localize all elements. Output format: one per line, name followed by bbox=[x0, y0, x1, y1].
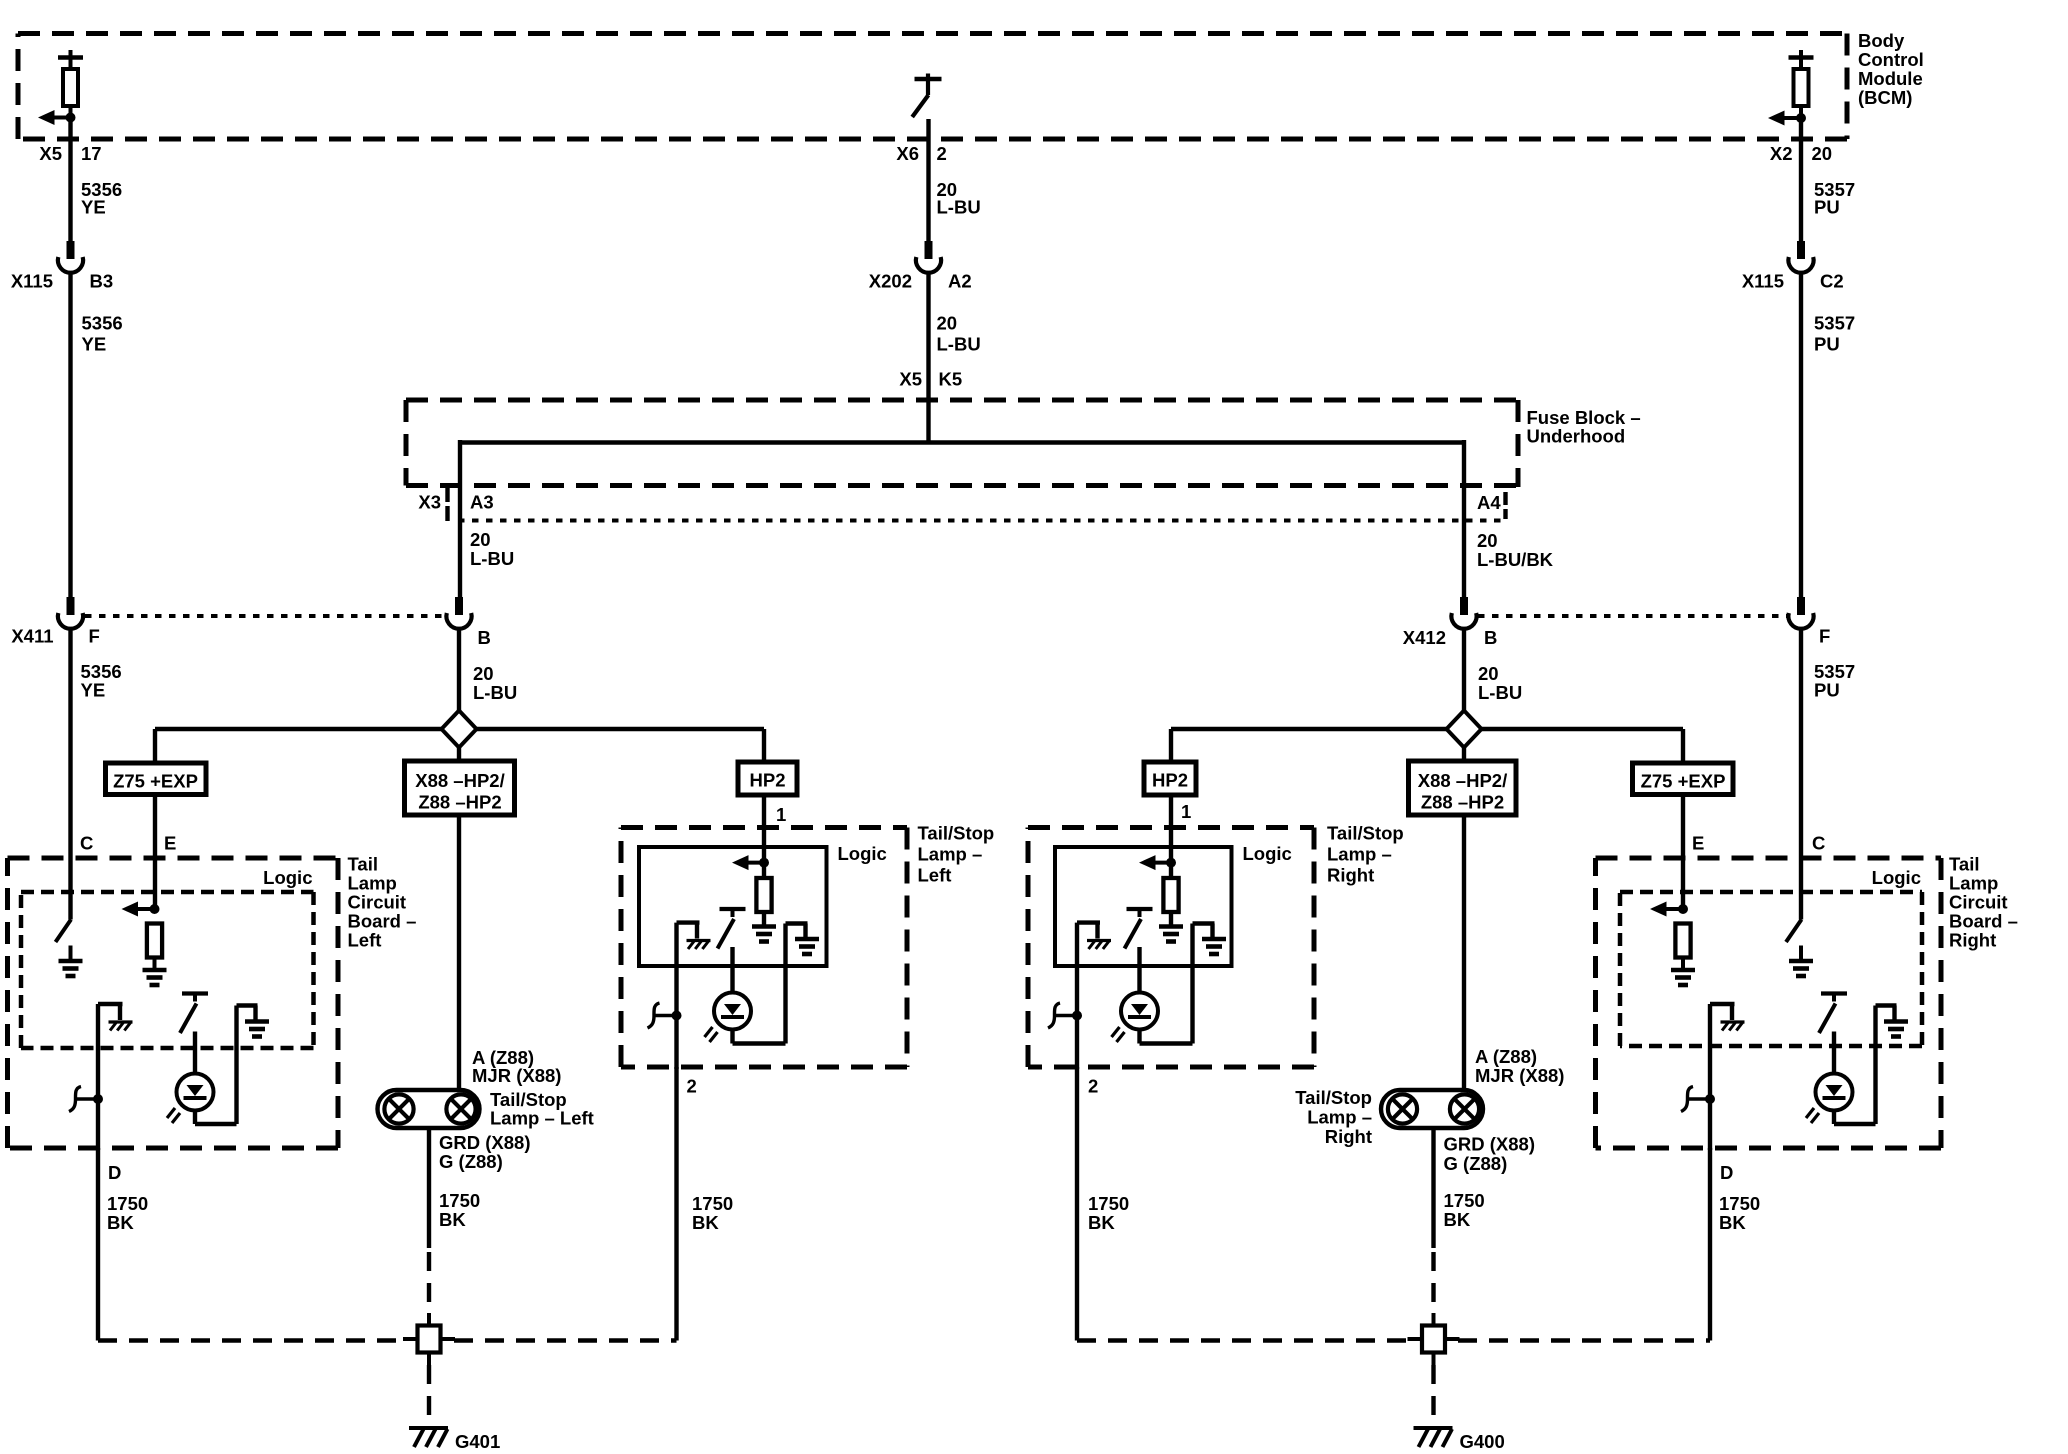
svg-text:X2: X2 bbox=[1770, 143, 1793, 164]
svg-text:1: 1 bbox=[1181, 801, 1191, 822]
svg-text:Lamp –: Lamp – bbox=[1327, 844, 1392, 865]
arrow into logic (Left unit) bbox=[732, 855, 769, 870]
svg-text:Z75 +EXP: Z75 +EXP bbox=[113, 771, 198, 792]
svg-text:D: D bbox=[108, 1162, 121, 1183]
pin label X6 | 2 bbox=[896, 143, 946, 164]
svg-text:X88 –HP2/: X88 –HP2/ bbox=[1418, 770, 1507, 791]
dashed wire to G401 splice bbox=[427, 1252, 431, 1311]
board box: Tail Lamp Circuit Board - Left, dashed outline bbox=[8, 856, 339, 861]
ground at bulb bracket (board Left) bbox=[245, 1022, 269, 1037]
wire: BCM switch down to connector X202 bbox=[926, 119, 930, 241]
svg-text:B: B bbox=[478, 627, 491, 648]
svg-text:MJR (X88): MJR (X88) bbox=[1475, 1065, 1564, 1086]
wire: BCM pin X5-17 down to connector X115 bbox=[68, 118, 72, 242]
connector X115 pin B3 (left) bbox=[58, 241, 83, 273]
pigtail hook on pin 2 wire (Left unit) bbox=[648, 1003, 682, 1028]
pin label X5 | K5 (fuse block input) bbox=[899, 369, 962, 390]
svg-text:17: 17 bbox=[81, 143, 102, 164]
svg-text:Board –: Board – bbox=[1949, 911, 2018, 932]
wire: switch throw down to bulb (Left unit) bbox=[730, 947, 734, 993]
wire: X88 left down to tail lamp left bbox=[457, 815, 461, 1090]
svg-text:D: D bbox=[1720, 1162, 1733, 1183]
splice bus (left): Z75 to HP2 bbox=[155, 727, 764, 731]
wire: bulb to ground bracket (Left unit) bbox=[733, 924, 808, 1044]
net box Z75 +EXP (left) bbox=[106, 763, 207, 795]
label A4 with dotted separator bbox=[1477, 492, 1506, 519]
svg-text:20: 20 bbox=[473, 663, 494, 684]
svg-text:G401: G401 bbox=[455, 1431, 500, 1452]
wire label 5357 PU (third, right) bbox=[1814, 661, 1855, 701]
svg-text:X115: X115 bbox=[1742, 271, 1784, 292]
svg-text:Tail/Stop: Tail/Stop bbox=[1327, 823, 1404, 844]
svg-text:Right: Right bbox=[1327, 865, 1374, 886]
wire label 20 L-BU (below B left) bbox=[473, 663, 517, 703]
label X115 | B3 bbox=[11, 271, 113, 292]
svg-text:YE: YE bbox=[81, 680, 106, 701]
label X3 | A3 with dotted separator bbox=[418, 487, 493, 521]
svg-text:L-BU: L-BU bbox=[470, 548, 514, 569]
svg-text:Module: Module bbox=[1858, 68, 1923, 89]
ground under resistor (Right unit) bbox=[1159, 927, 1183, 942]
LED bulb (Right unit) bbox=[1112, 993, 1159, 1043]
splice diamond S-left bbox=[442, 711, 477, 748]
svg-text:G400: G400 bbox=[1460, 1431, 1505, 1452]
wire: switch throw down to bulb (Right unit) bbox=[1137, 947, 1141, 993]
svg-text:Logic: Logic bbox=[1243, 843, 1292, 864]
svg-text:A2: A2 bbox=[948, 271, 972, 292]
wire label 20 L-BU (below B right) bbox=[1478, 663, 1522, 703]
wire label 1750 BK (unit-left pin 2) bbox=[692, 1193, 733, 1233]
svg-text:Tail: Tail bbox=[348, 854, 379, 875]
svg-text:X6: X6 bbox=[896, 143, 919, 164]
LED bulb (Left unit) bbox=[705, 993, 752, 1043]
svg-text:Left: Left bbox=[348, 930, 382, 951]
label: Body Control Module (BCM) bbox=[1858, 30, 1924, 108]
pigtail hook on pin D wire (board Left) bbox=[69, 1087, 103, 1112]
switch to ground on pin C (board Left) bbox=[56, 909, 72, 961]
svg-text:Circuit: Circuit bbox=[1949, 892, 2008, 913]
board box: Tail Lamp Circuit Board - Right, dashed outline bbox=[1596, 856, 1942, 861]
wire: fuse block right drop to pin A4 bbox=[1462, 440, 1466, 597]
labels around left lamp bbox=[439, 1047, 594, 1172]
svg-text:A (Z88): A (Z88) bbox=[1475, 1046, 1537, 1067]
svg-text:L-BU: L-BU bbox=[937, 334, 981, 355]
svg-text:Lamp: Lamp bbox=[1949, 873, 1998, 894]
wire label 1750 BK (left lamp ground) bbox=[439, 1190, 480, 1230]
wire: HP2 left pin 1 down into lamp unit bbox=[762, 795, 766, 878]
svg-text:5356: 5356 bbox=[82, 313, 123, 334]
chassis ground (board Right) bbox=[1721, 1022, 1745, 1031]
wire: bulb loop to ground bracket (board Right) bbox=[1834, 1006, 1897, 1125]
arrow into logic (Right unit) bbox=[1139, 855, 1176, 870]
svg-text:1750: 1750 bbox=[439, 1190, 480, 1211]
pigtail hook on pin 2 wire (Right unit) bbox=[1048, 1003, 1082, 1028]
wire: left lamp ground drop bbox=[427, 1128, 431, 1248]
svg-text:X88 –HP2/: X88 –HP2/ bbox=[415, 770, 504, 791]
module box: Fuse Block - Underhood, dashed outline bbox=[406, 398, 1518, 403]
svg-text:L-BU: L-BU bbox=[1478, 682, 1522, 703]
LED bulb (board Left) bbox=[167, 1074, 214, 1124]
unit box: Tail/Stop Lamp - Left, dashed outline bbox=[621, 825, 907, 830]
wire: X115-B3 down to connector X411 bbox=[68, 273, 72, 597]
wire: B down to splice diamond (right) bbox=[1462, 629, 1466, 712]
ground at bracket (Left unit) bbox=[795, 939, 819, 954]
label: Fuse Block - Underhood bbox=[1527, 407, 1641, 447]
chassis ground in logic (Left unit) bbox=[687, 941, 711, 950]
svg-text:20: 20 bbox=[1478, 663, 1499, 684]
svg-text:1750: 1750 bbox=[1088, 1193, 1129, 1214]
svg-text:K5: K5 bbox=[939, 369, 963, 390]
pin label X2 | 20 bbox=[1770, 143, 1832, 164]
connector pin F (right) bbox=[1788, 597, 1813, 629]
pigtail hook on pin D wire (board Right) bbox=[1681, 1087, 1715, 1112]
svg-text:X3: X3 bbox=[418, 492, 441, 513]
svg-text:BK: BK bbox=[107, 1212, 134, 1233]
svg-text:1750: 1750 bbox=[692, 1193, 733, 1214]
dotted connector-face line between A3 and A4 bbox=[458, 519, 1504, 523]
ground G400 bbox=[1414, 1428, 1453, 1447]
svg-text:X411: X411 bbox=[11, 626, 53, 647]
net box HP2 (right) bbox=[1144, 762, 1196, 795]
wire label 5356 YE (second, left) bbox=[82, 313, 123, 355]
lamp: Tail/Stop Lamp - Right (bulb pair) bbox=[1381, 1090, 1483, 1128]
svg-text:20: 20 bbox=[937, 313, 958, 334]
svg-text:Z88 –HP2: Z88 –HP2 bbox=[418, 792, 501, 813]
splice bus (right): HP2 to Z75 bbox=[1171, 727, 1683, 731]
resistor in logic (Left unit) bbox=[756, 878, 771, 927]
svg-text:Right: Right bbox=[1325, 1126, 1372, 1147]
svg-text:X115: X115 bbox=[11, 271, 53, 292]
pin label X5 | 17 bbox=[39, 143, 101, 164]
svg-text:Lamp –: Lamp – bbox=[1307, 1107, 1372, 1128]
wire: BCM pin X2-20 down to connector X115 right bbox=[1799, 118, 1803, 241]
svg-text:Lamp –: Lamp – bbox=[918, 844, 983, 865]
dashed wire to G400 splice bbox=[1431, 1252, 1435, 1311]
wire label 5356 YE (third, left) bbox=[81, 661, 122, 701]
switch S1 inside BCM (brake signal, x=928.5) bbox=[912, 74, 941, 118]
arrow on pin E wire (board Left) bbox=[122, 902, 160, 917]
dashed ground bus to G400 bbox=[1077, 1338, 1710, 1342]
net box X88 -HP2/Z88 -HP2 (right) bbox=[1409, 761, 1517, 815]
svg-text:Lamp: Lamp bbox=[348, 873, 397, 894]
wire label 1750 BK (unit-right pin 2) bbox=[1088, 1193, 1129, 1233]
wire: fuse block left drop to pin A3 bbox=[458, 440, 462, 597]
wire: bus down to HP2 box (right) bbox=[1169, 729, 1173, 762]
svg-text:(BCM): (BCM) bbox=[1858, 87, 1912, 108]
switch in logic (Right unit) bbox=[1125, 909, 1153, 949]
svg-text:G (Z88): G (Z88) bbox=[439, 1151, 503, 1172]
chassis bracket / pin 2 wire (Right unit) bbox=[1077, 923, 1100, 1069]
svg-text:YE: YE bbox=[81, 197, 106, 218]
wire label 20 L-BU (second, middle) bbox=[937, 313, 981, 355]
wire: X202-A2 down to fuse block pin X5-K5 bbox=[926, 273, 930, 443]
svg-text:Logic: Logic bbox=[1872, 867, 1921, 888]
wire label 5357 PU (second, right) bbox=[1814, 313, 1855, 355]
svg-text:GRD (X88): GRD (X88) bbox=[439, 1132, 531, 1153]
ground under resistor (Left unit) bbox=[752, 927, 776, 942]
chassis bracket / pin 2 wire (Left unit) bbox=[677, 923, 700, 1069]
ground G401 bbox=[409, 1428, 448, 1447]
svg-text:B3: B3 bbox=[90, 271, 114, 292]
label X412 | B bbox=[1403, 627, 1498, 648]
switch in board Left bbox=[180, 994, 208, 1034]
wire: X411-F down into left tail lamp circuit board (pin C) bbox=[68, 629, 72, 909]
fuse F-right inside BCM (x=1801) bbox=[1789, 50, 1814, 117]
svg-text:Board –: Board – bbox=[348, 911, 417, 932]
module box: Body Control Module (BCM), dashed outline bbox=[18, 31, 1847, 36]
label: Tail/Stop Lamp - Left bbox=[918, 823, 995, 886]
switch in board Right bbox=[1819, 994, 1847, 1034]
svg-text:BK: BK bbox=[1719, 1212, 1746, 1233]
svg-text:G (Z88): G (Z88) bbox=[1444, 1153, 1508, 1174]
svg-text:PU: PU bbox=[1814, 197, 1840, 218]
wire: X88 right down to tail lamp right bbox=[1462, 815, 1466, 1090]
wire: B down to splice diamond (left) bbox=[457, 629, 461, 712]
svg-text:X5: X5 bbox=[39, 143, 62, 164]
svg-text:E: E bbox=[164, 833, 176, 854]
svg-text:X202: X202 bbox=[869, 271, 912, 292]
chassis bracket / pin D wire (board Right) bbox=[1710, 1004, 1735, 1150]
wire: F down into right tail lamp circuit board (pin C) bbox=[1799, 629, 1803, 909]
wire: right lamp ground drop bbox=[1431, 1128, 1435, 1248]
ground at bracket (Right unit) bbox=[1202, 939, 1226, 954]
wire: bulb loop to ground bracket (board Left) bbox=[195, 1006, 258, 1125]
logic box (dashed) inside board Left bbox=[21, 890, 314, 895]
svg-text:HP2: HP2 bbox=[750, 770, 786, 791]
net box Z75 +EXP (right) bbox=[1633, 763, 1734, 795]
label X115 | C2 bbox=[1742, 271, 1844, 292]
svg-text:BK: BK bbox=[692, 1212, 719, 1233]
svg-text:A3: A3 bbox=[470, 492, 494, 513]
svg-text:1750: 1750 bbox=[1444, 1190, 1485, 1211]
wire label 5357 PU (upper right) bbox=[1814, 179, 1855, 218]
svg-text:B: B bbox=[1484, 627, 1497, 648]
svg-text:BK: BK bbox=[1444, 1209, 1471, 1230]
wire: bus down to Z75 box (right) bbox=[1681, 729, 1685, 762]
wire label 20 L-BU (upper middle) bbox=[937, 179, 981, 218]
svg-text:MJR (X88): MJR (X88) bbox=[472, 1065, 561, 1086]
svg-text:Body: Body bbox=[1858, 30, 1905, 51]
arrow (signal exits left) on right BCM wire bbox=[1768, 111, 1806, 126]
switch to ground on pin C (board Right) bbox=[1786, 909, 1802, 961]
svg-text:2: 2 bbox=[1088, 1076, 1098, 1097]
wire: switch throw to bulb (board Left) bbox=[193, 1032, 197, 1074]
svg-text:1750: 1750 bbox=[1719, 1193, 1760, 1214]
connector X411 pin F (left) bbox=[58, 597, 83, 629]
connector X202 pin A2 bbox=[916, 241, 941, 273]
svg-text:C: C bbox=[1812, 833, 1825, 854]
svg-text:L-BU/BK: L-BU/BK bbox=[1477, 549, 1554, 570]
svg-text:X5: X5 bbox=[899, 369, 922, 390]
dashed drop to G401 ground bbox=[427, 1365, 431, 1424]
svg-text:A4: A4 bbox=[1477, 492, 1501, 513]
dotted connector-face line X411 row (left) bbox=[85, 614, 445, 618]
svg-text:F: F bbox=[89, 626, 100, 647]
net box HP2 (left) bbox=[738, 762, 797, 795]
svg-text:PU: PU bbox=[1814, 680, 1840, 701]
wire label 5356 YE (upper left) bbox=[81, 179, 122, 218]
label: Tail Lamp Circuit Board - Right bbox=[1949, 854, 2018, 951]
connector X115 pin C2 (right) bbox=[1788, 241, 1813, 273]
wire label 20 L-BU/BK (below A4) bbox=[1477, 530, 1554, 570]
svg-text:GRD (X88): GRD (X88) bbox=[1444, 1134, 1536, 1155]
wire: HP2 right pin 1 down into lamp unit bbox=[1169, 795, 1173, 878]
ground under C switch (board Left) bbox=[59, 961, 83, 976]
svg-text:F: F bbox=[1819, 626, 1830, 647]
splice junction square at G401 bbox=[403, 1313, 455, 1365]
svg-text:L-BU: L-BU bbox=[473, 682, 517, 703]
svg-text:Z75 +EXP: Z75 +EXP bbox=[1641, 771, 1726, 792]
label: Tail Lamp Circuit Board - Left bbox=[348, 854, 417, 951]
svg-text:Logic: Logic bbox=[838, 843, 887, 864]
svg-text:C: C bbox=[80, 833, 93, 854]
svg-text:5357: 5357 bbox=[1814, 313, 1855, 334]
wire: switch throw to bulb (board Right) bbox=[1832, 1032, 1836, 1074]
chassis bracket / pin D wire (board Left) bbox=[98, 1004, 123, 1150]
wire: unit-left pin 2 down bbox=[674, 1067, 678, 1341]
LED bulb (board Right) bbox=[1806, 1074, 1853, 1124]
wire: bulb to ground bracket (Right unit) bbox=[1140, 924, 1215, 1044]
chassis ground in logic (Right unit) bbox=[1087, 941, 1111, 950]
wire: diamond down to X88 box (right) bbox=[1462, 747, 1466, 762]
svg-text:20: 20 bbox=[470, 529, 491, 550]
unit box: Tail/Stop Lamp - Right, dashed outline bbox=[1028, 825, 1314, 830]
label X411 | F bbox=[11, 626, 100, 647]
svg-text:Control: Control bbox=[1858, 49, 1924, 70]
svg-text:1750: 1750 bbox=[107, 1193, 148, 1214]
logic box (solid) inside Tail/Stop Lamp - Left bbox=[639, 847, 827, 966]
ground under C switch (board Right) bbox=[1789, 961, 1813, 976]
svg-text:2: 2 bbox=[937, 143, 947, 164]
lamp: Tail/Stop Lamp - Left (bulb pair) bbox=[378, 1090, 480, 1128]
svg-text:Z88 –HP2: Z88 –HP2 bbox=[1421, 792, 1504, 813]
connector X412 pin B (right branch) bbox=[1451, 597, 1476, 629]
wire label 20 L-BU (below A3) bbox=[470, 529, 514, 569]
svg-text:1: 1 bbox=[776, 804, 786, 825]
svg-text:2: 2 bbox=[687, 1076, 697, 1097]
svg-text:BK: BK bbox=[439, 1209, 466, 1230]
logic box (solid) inside Tail/Stop Lamp - Right bbox=[1055, 847, 1232, 966]
svg-text:Lamp – Left: Lamp – Left bbox=[490, 1108, 594, 1129]
ground under E resistor (board Right) bbox=[1671, 970, 1695, 985]
wire: X115-C2 down to connector F right bbox=[1799, 273, 1803, 597]
logic box (dashed) inside board Right bbox=[1620, 890, 1922, 895]
labels around right lamp bbox=[1295, 1046, 1564, 1174]
wire label 1750 BK (pin D, board Left) bbox=[107, 1193, 148, 1233]
svg-text:X412: X412 bbox=[1403, 627, 1446, 648]
svg-text:E: E bbox=[1692, 833, 1704, 854]
svg-text:Tail: Tail bbox=[1949, 854, 1980, 875]
resistor in logic (Right unit) bbox=[1163, 878, 1178, 927]
wire: board-left pin D down bbox=[96, 1148, 100, 1341]
svg-text:20: 20 bbox=[1812, 143, 1833, 164]
svg-text:HP2: HP2 bbox=[1152, 770, 1188, 791]
svg-text:Tail/Stop: Tail/Stop bbox=[918, 823, 995, 844]
resistor on pin E (board Right) bbox=[1675, 924, 1690, 971]
switch in logic (Left unit) bbox=[718, 909, 746, 949]
svg-text:BK: BK bbox=[1088, 1212, 1115, 1233]
svg-text:Underhood: Underhood bbox=[1527, 426, 1626, 447]
dotted connector-face line X412 row (right) bbox=[1478, 614, 1787, 618]
arrow on pin E wire (board Right) bbox=[1650, 902, 1688, 917]
svg-text:PU: PU bbox=[1814, 334, 1840, 355]
wire: unit-right pin 2 down bbox=[1075, 1067, 1079, 1341]
wire: Z75 right down to board pin E bbox=[1681, 797, 1685, 909]
svg-text:Left: Left bbox=[918, 865, 952, 886]
label X202 | A2 bbox=[869, 271, 972, 292]
svg-text:Right: Right bbox=[1949, 930, 1996, 951]
wire: diamond down to X88 box (left) bbox=[457, 747, 461, 762]
svg-text:20: 20 bbox=[1477, 530, 1498, 551]
splice diamond S-right bbox=[1447, 711, 1482, 748]
dashed drop to G400 ground bbox=[1431, 1365, 1435, 1424]
wire: board-right pin D down bbox=[1708, 1148, 1712, 1341]
wire: bus down to HP2 box (left) bbox=[762, 729, 766, 762]
bus wire inside fuse block bbox=[460, 440, 1464, 444]
arrow (signal exits left) on left BCM wire bbox=[38, 110, 76, 125]
dashed ground bus to G401 bbox=[98, 1338, 677, 1342]
wire label 1750 BK (right lamp ground) bbox=[1444, 1190, 1485, 1230]
connector X412 pin B (left branch) bbox=[446, 597, 471, 629]
svg-text:Logic: Logic bbox=[263, 867, 312, 888]
resistor on pin E (board Left) bbox=[147, 924, 162, 971]
wire: bus down to Z75 box (left) bbox=[153, 729, 157, 762]
svg-text:Tail/Stop: Tail/Stop bbox=[1295, 1087, 1372, 1108]
wire label 1750 BK (pin D, board Right) bbox=[1719, 1193, 1760, 1233]
svg-text:YE: YE bbox=[82, 334, 107, 355]
label: Tail/Stop Lamp - Right bbox=[1327, 823, 1404, 886]
splice junction square at G400 bbox=[1408, 1313, 1460, 1365]
svg-text:C2: C2 bbox=[1820, 271, 1844, 292]
svg-text:L-BU: L-BU bbox=[937, 197, 981, 218]
fuse F-left inside BCM (x=70.5) bbox=[58, 50, 83, 117]
ground under E resistor (board Left) bbox=[143, 970, 167, 985]
chassis ground (board Left) bbox=[109, 1022, 133, 1031]
svg-text:Circuit: Circuit bbox=[348, 892, 407, 913]
ground at bulb bracket (board Right) bbox=[1884, 1022, 1908, 1037]
net box X88 -HP2/Z88 -HP2 (left) bbox=[405, 761, 515, 815]
wire: Z75 left down to board pin E bbox=[153, 797, 157, 909]
